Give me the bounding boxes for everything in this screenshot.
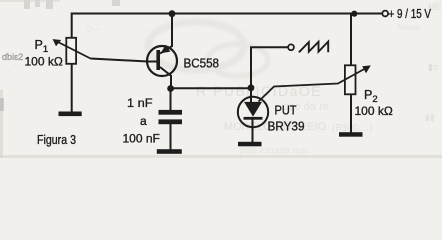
wire: capacitor to ground — [170, 124, 172, 150]
wire: P1 bottom to ground — [71, 64, 73, 112]
svg-text:ɗbiɛ2: ɗbiɛ2 — [2, 52, 23, 62]
wire: node down to capacitor — [170, 88, 172, 110]
bottom scan band — [0, 155, 442, 158]
svg-text:PUT: PUT — [275, 103, 297, 117]
terminal: +9/15V supply — [382, 11, 388, 17]
node: P2/rail junction — [351, 11, 357, 17]
scan bleed-through shapes — [148, 22, 268, 76]
ground (C1) — [157, 149, 182, 154]
transistor Q1 BC558 circle — [147, 46, 177, 76]
P2 wiper arrowhead — [362, 65, 371, 73]
transistor Q1 collector — [160, 67, 172, 76]
PUT cathode bar — [244, 117, 263, 120]
wire: node to PUT anode column — [171, 87, 252, 89]
potentiometer P2 body — [345, 65, 356, 94]
potentiometer P1 wiper — [55, 41, 91, 59]
svg-text:Matsu: Matsu — [398, 23, 420, 32]
svg-text:▮o: ▮o — [428, 62, 438, 72]
svg-text:○: ○ — [5, 66, 10, 76]
ground (P1) — [59, 112, 82, 117]
svg-text:+ 9 / 15 V: + 9 / 15 V — [389, 7, 432, 21]
svg-text:pela estrada real: pela estrada real — [240, 145, 307, 155]
node: emitter/rail junction — [169, 10, 176, 17]
transistor Q1 base bar — [156, 50, 160, 70]
PUT gate wire to P2 wiper — [259, 68, 368, 102]
wire: collector vertical (Q1 to node) — [170, 76, 172, 89]
wire: PUT cathode to ground — [252, 119, 254, 143]
svg-text:BC558: BC558 — [184, 55, 220, 70]
wire: left drop to P1 top — [71, 13, 73, 38]
PUT U1 BRY39 circle — [238, 97, 268, 127]
svg-text:▮▮: ▮▮ — [425, 112, 435, 122]
wire: P1 wiper to Q1 base — [91, 59, 158, 62]
wire: PUT anode — [250, 88, 252, 102]
svg-text:100 nF: 100 nF — [123, 132, 160, 146]
svg-text:100 kΩ: 100 kΩ — [25, 55, 63, 69]
ground (P2) — [339, 132, 363, 137]
svg-text:1 nF: 1 nF — [127, 96, 153, 110]
wire: output tap up and right — [251, 47, 288, 88]
terminal: sawtooth output — [288, 44, 294, 50]
capacitor C1 plate 2 — [159, 119, 183, 124]
wire: rail to P2 top — [350, 14, 352, 66]
wire: emitter vertical (rail to Q1) — [171, 14, 173, 47]
node: output/anode junction — [248, 84, 255, 91]
svg-text:BRY39: BRY39 — [268, 118, 305, 133]
potentiometer P1 body — [66, 38, 76, 64]
PUT anode triangle — [244, 102, 262, 117]
svg-text:100 kΩ: 100 kΩ — [355, 104, 393, 118]
wire: P2 bottom to ground — [350, 94, 352, 133]
svg-text:O—: O— — [85, 24, 101, 34]
wire: top supply rail — [72, 13, 382, 15]
node: collector junction — [167, 85, 174, 92]
sawtooth waveform symbol — [299, 42, 328, 53]
ground (PUT) — [238, 142, 262, 147]
transistor Q1 emitter with arrow — [160, 46, 173, 54]
svg-text:a: a — [140, 114, 147, 128]
svg-text:Figura 3: Figura 3 — [37, 132, 76, 147]
scan ghost text artifacts — [5, 2, 442, 155]
capacitor C1 plate 1 — [159, 110, 183, 115]
